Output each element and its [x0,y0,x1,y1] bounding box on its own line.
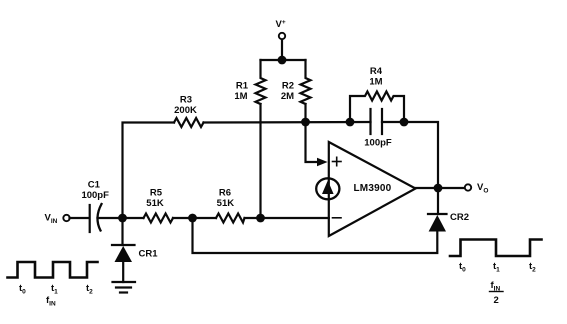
wire R5 to R6 [173,217,216,219]
svg-text:51K: 51K [217,198,235,209]
svg-text:51K: 51K [146,198,164,209]
svg-text:t0: t0 [19,283,26,296]
wire CR2 to feedback rail [193,218,438,253]
svg-text:100pF: 100pF [81,190,109,201]
svg-text:V+: V+ [276,19,286,30]
svg-text:t1: t1 [493,261,500,274]
capacitor C1 flat plate [89,205,91,232]
resistor R3 [174,118,204,127]
resistor R6 [216,214,245,223]
svg-text:200K: 200K [174,105,197,116]
svg-text:1M: 1M [369,77,382,88]
wire R1 bottom lead [259,104,261,218]
wire top rail [261,59,306,61]
diode CR2 body [429,215,446,232]
svg-text:1M: 1M [234,91,247,102]
svg-text:t2: t2 [529,261,536,274]
resistor R4 [350,92,404,123]
svg-text:R3: R3 [180,95,192,106]
wire plus input feed [306,122,318,162]
wire R2 bottom lead [304,104,306,122]
plus input arrowhead [317,158,328,167]
junction output [434,184,443,193]
resistor R1 [256,60,266,104]
op-amp U1 triangle [329,142,416,236]
capacitor C2 100pF right plate [381,109,383,134]
svg-text:t2: t2 [86,283,93,296]
diode CR1 body [115,246,133,262]
wire R6 to minus input [245,217,329,219]
node V+ terminal [279,33,285,39]
junction R5-R6 [188,214,197,223]
op-amp plus sign [333,157,342,165]
wire op-amp output [416,187,465,189]
wire output to CR2 [437,188,439,214]
resistor R5 [144,214,174,223]
svg-text:VO: VO [477,182,488,195]
svg-text:100pF: 100pF [364,138,392,149]
wire cap to corner [382,122,438,188]
diode CR1 cathode bar [112,244,135,246]
junction R2 bottom [301,118,310,127]
svg-text:t1: t1 [51,283,58,296]
svg-text:VIN: VIN [45,213,58,226]
output waveform [450,240,542,257]
current source inside op-amp [316,178,339,199]
junction input node [118,214,127,223]
junction R4 left [346,118,355,127]
resistor R2 [301,60,311,104]
capacitor C2 100pF left plate [369,109,371,134]
wire left vertical [123,123,175,219]
svg-text:R5: R5 [150,188,163,199]
svg-text:CR2: CR2 [450,212,469,223]
junction V+ rail [278,56,287,65]
wire mid rail to cap [204,121,371,124]
svg-text:fIN: fIN [491,280,501,293]
svg-text:2: 2 [494,295,499,306]
svg-text:t0: t0 [459,261,466,274]
current source arrow [322,181,334,195]
svg-text:R2: R2 [282,81,294,92]
svg-text:LM3900: LM3900 [354,183,392,194]
fraction bar fIN/2 [490,291,504,293]
svg-text:2M: 2M [281,91,294,102]
node VO terminal [465,184,471,190]
junction R4 right [400,118,409,127]
junction R1 bottom [256,214,265,223]
svg-text:R6: R6 [219,188,231,199]
diode CR2 cathode bar [428,213,447,215]
wire CR1 to ground [122,262,124,282]
svg-text:R1: R1 [236,81,249,92]
node VIN terminal [63,215,69,221]
wire VIN to C1 [70,217,90,219]
svg-text:C1: C1 [88,180,101,191]
capacitor C1 curved plate [97,204,101,231]
op-amp minus sign [333,217,342,219]
input waveform [8,262,98,278]
ground [113,282,136,293]
wire CR1 lead [121,218,123,245]
svg-text:R4: R4 [370,66,383,77]
wire C1 to node [98,217,144,219]
svg-text:CR1: CR1 [139,249,159,260]
wire V+ lead down [281,40,283,61]
svg-text:fIN: fIN [46,295,56,308]
